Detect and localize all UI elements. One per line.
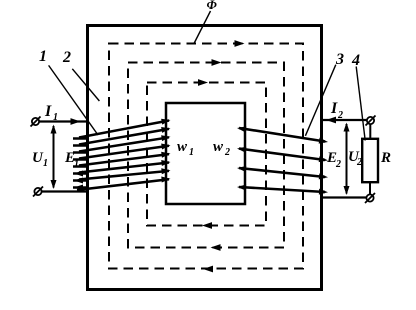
svg-text:R: R (380, 150, 391, 166)
flux arrow outer bottom (left) (203, 266, 213, 273)
winding w1 turn 2 (73, 125, 171, 145)
leader line flux (194, 11, 211, 44)
winding w2 turn 2 (237, 146, 329, 164)
wire secondary top (322, 119, 367, 121)
winding w1 turn 3 (73, 134, 171, 153)
leader line 1 (49, 65, 98, 135)
svg-text:1: 1 (39, 48, 47, 65)
flux line middle (dashed loop) (128, 63, 284, 248)
winding w1 turn 5 (73, 151, 171, 167)
terminal secondary top (366, 116, 376, 126)
core outer outline (88, 26, 322, 290)
flux arrow inner bottom (left) (202, 222, 212, 229)
winding w2 turn 4 (237, 184, 328, 195)
winding w1 turn 6 (73, 159, 171, 176)
winding w1 turn 7 (73, 167, 171, 183)
current arrow I2 (326, 117, 336, 124)
svg-text:1: 1 (53, 112, 58, 123)
svg-text:1: 1 (189, 147, 194, 158)
flux arrow outer top (right) (235, 40, 245, 47)
flux arrow middle bottom (left) (211, 244, 221, 251)
leader line 3 (305, 65, 335, 136)
svg-text:1: 1 (74, 159, 79, 170)
wire resistor to bottom terminal (369, 182, 371, 194)
svg-text:I: I (330, 100, 338, 117)
svg-text:w: w (177, 139, 188, 155)
wire terminal to resistor (369, 125, 371, 140)
svg-text:2: 2 (356, 157, 362, 168)
winding w1 turn 1 (73, 117, 171, 138)
svg-text:2: 2 (335, 159, 341, 170)
winding w2 turn 3 (237, 165, 329, 180)
winding w2 turn 1 (237, 125, 329, 145)
voltage arrow U1 (51, 125, 57, 190)
svg-text:w: w (213, 139, 224, 155)
svg-text:4: 4 (351, 52, 360, 69)
svg-text:I: I (44, 103, 52, 120)
svg-text:1: 1 (43, 158, 48, 169)
wire secondary bottom (322, 196, 366, 198)
flux line outer (dashed loop) (109, 44, 303, 269)
terminal secondary bottom (365, 193, 375, 203)
svg-text:3: 3 (335, 51, 344, 68)
svg-text:Φ: Φ (207, 0, 218, 12)
terminal primary bottom (33, 187, 43, 197)
winding w1 turn 8 (73, 176, 171, 191)
svg-text:2: 2 (224, 147, 230, 158)
resistor R (362, 139, 378, 182)
flux line inner (dashed loop) (147, 83, 266, 226)
current arrow I1 (71, 118, 81, 125)
wire primary bottom (41, 190, 88, 192)
voltage arrow U2 (344, 123, 350, 196)
leader line 2 (72, 69, 99, 101)
svg-text:2: 2 (62, 49, 71, 66)
terminal primary top (31, 117, 41, 127)
wire primary top (39, 120, 88, 122)
flux arrow inner top (right) (198, 79, 208, 86)
core window (166, 103, 245, 204)
flux arrow middle top (right) (212, 59, 222, 66)
svg-text:2: 2 (337, 110, 343, 121)
winding w1 turn 4 (73, 142, 171, 159)
leader line 4 (356, 67, 365, 141)
